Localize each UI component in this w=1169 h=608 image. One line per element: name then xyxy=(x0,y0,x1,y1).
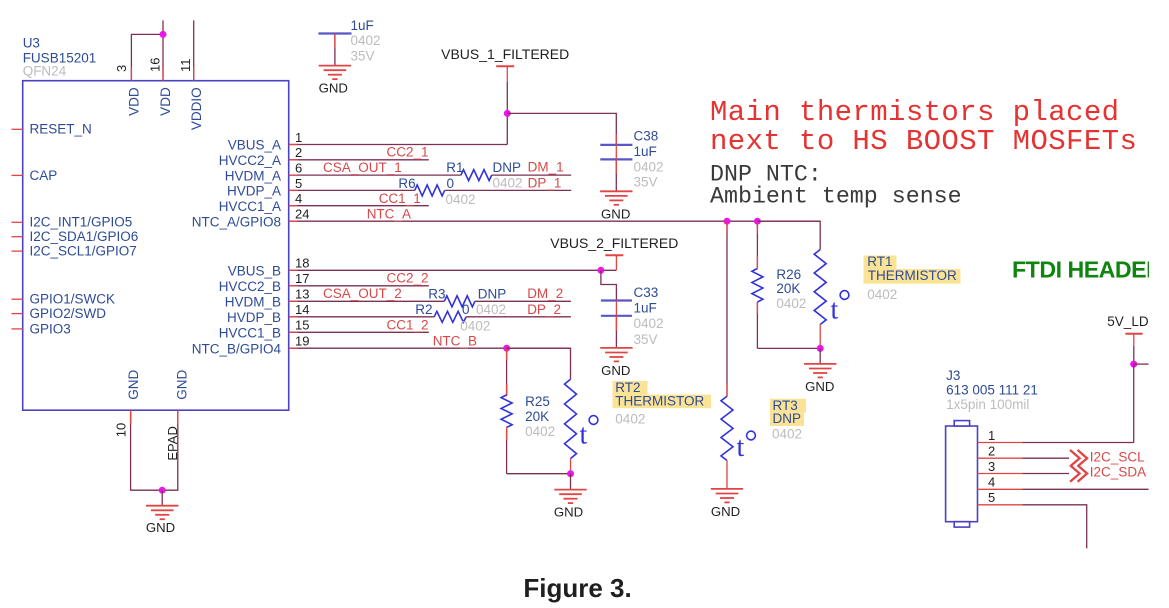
resistor R25 xyxy=(501,395,512,428)
svg-text:GPIO1/SWCK: GPIO1/SWCK xyxy=(30,292,116,307)
svg-text:HVCC2_B: HVCC2_B xyxy=(219,279,281,294)
svg-text:Figure 3.: Figure 3. xyxy=(523,573,631,603)
wire DM_2 xyxy=(475,300,571,302)
capacitor C37 plate xyxy=(318,32,351,34)
svg-text:DM_1: DM_1 xyxy=(528,160,564,175)
port chevron I2C_SCL xyxy=(1070,450,1087,466)
svg-text:CC1_2: CC1_2 xyxy=(387,317,429,332)
junction EPAD/GND xyxy=(159,487,166,494)
svg-text:Ambient temp sense: Ambient temp sense xyxy=(710,183,962,209)
svg-text:11: 11 xyxy=(178,59,193,73)
svg-text:HVDP_A: HVDP_A xyxy=(227,184,281,199)
pin GPIO1/SWCK stub xyxy=(12,298,23,300)
svg-text:NTC_A: NTC_A xyxy=(367,207,411,222)
svg-text:CC2_2: CC2_2 xyxy=(387,271,429,286)
pin CAP stub xyxy=(12,174,23,176)
ground symbol RT3 xyxy=(711,488,743,490)
resistor R1 xyxy=(461,170,492,181)
junction R25/RT2 bottom xyxy=(567,470,574,477)
svg-text:DP_2: DP_2 xyxy=(527,302,561,317)
junction VBUS_2 xyxy=(597,267,604,274)
svg-text:DNP: DNP xyxy=(478,286,507,301)
wire VBUS_2 pin18 xyxy=(289,269,617,271)
wire R25 bottom xyxy=(506,427,508,473)
net CC1_1 stub xyxy=(289,205,429,207)
wire J3 pin5 xyxy=(978,504,1023,506)
svg-text:VBUS_B: VBUS_B xyxy=(228,264,281,279)
wire NTC_B xyxy=(289,347,571,349)
net CC2_1 stub xyxy=(289,159,429,161)
svg-text:1: 1 xyxy=(988,428,995,443)
svg-text:613 005 111 21: 613 005 111 21 xyxy=(946,383,1038,398)
pin number 11 xyxy=(178,59,193,73)
svg-text:VDDIO: VDDIO xyxy=(189,87,204,130)
wire RT3 bottom xyxy=(726,461,728,489)
svg-text:2: 2 xyxy=(988,444,995,459)
svg-text:DNP: DNP xyxy=(773,411,802,426)
resistor R26 xyxy=(752,269,763,303)
svg-text:R26: R26 xyxy=(776,267,801,282)
svg-text:19: 19 xyxy=(295,334,309,349)
wire C37 to ground xyxy=(334,34,336,66)
svg-text:R25: R25 xyxy=(525,394,550,409)
svg-text:0402: 0402 xyxy=(493,175,523,190)
svg-text:17: 17 xyxy=(295,271,309,286)
svg-text:24: 24 xyxy=(295,207,309,222)
pin EPAD wire xyxy=(162,410,178,490)
svg-text:VDD: VDD xyxy=(158,87,173,116)
svg-text:HVCC1_B: HVCC1_B xyxy=(219,326,281,341)
capacitor C33 plates xyxy=(601,299,632,301)
wire RT3 top xyxy=(726,221,728,396)
svg-text:15: 15 xyxy=(295,318,309,333)
svg-text:5: 5 xyxy=(295,176,302,191)
svg-text:DP_1: DP_1 xyxy=(528,176,562,191)
svg-text:16: 16 xyxy=(147,58,162,72)
svg-text:1: 1 xyxy=(295,130,302,145)
svg-text:0402: 0402 xyxy=(476,302,506,317)
wire HVDP_B to R2 xyxy=(289,316,435,318)
svg-text:t: t xyxy=(831,295,839,326)
svg-text:I2C_SCL1/GPIO7: I2C_SCL1/GPIO7 xyxy=(30,244,137,259)
junction R26/RT1 bottom xyxy=(817,345,824,352)
svg-text:VBUS_A: VBUS_A xyxy=(228,138,281,153)
svg-text:U3: U3 xyxy=(23,35,40,50)
svg-text:0402: 0402 xyxy=(460,319,490,334)
svg-text:HVDP_B: HVDP_B xyxy=(227,310,281,325)
highlight RT1 xyxy=(864,256,897,270)
wire 5V riser xyxy=(1133,346,1135,364)
svg-text:THERMISTOR: THERMISTOR xyxy=(868,268,957,283)
svg-text:3: 3 xyxy=(114,65,129,72)
svg-text:RESET_N: RESET_N xyxy=(30,122,92,137)
svg-text:0: 0 xyxy=(462,302,470,317)
svg-text:HVCC1_A: HVCC1_A xyxy=(219,199,281,214)
wire DM_1 xyxy=(492,174,572,176)
svg-text:CC1_1: CC1_1 xyxy=(379,191,421,206)
pin GPIO2/SWD stub xyxy=(12,313,23,315)
svg-text:NTC_B: NTC_B xyxy=(433,333,477,348)
ground symbol EPAD xyxy=(161,490,163,506)
pin label VDDIO (11) xyxy=(189,87,204,130)
wire R26 top xyxy=(756,221,758,268)
svg-text:GND: GND xyxy=(319,81,348,96)
pin number 10 xyxy=(113,423,128,437)
wire NTC_A xyxy=(289,220,821,222)
pin label GND (EPAD) xyxy=(174,369,189,399)
ground symbol R25/RT2 xyxy=(570,474,572,490)
highlight RT2 xyxy=(613,381,648,395)
svg-text:Main thermistors placed: Main thermistors placed xyxy=(710,96,1119,129)
net CC2_2 stub xyxy=(289,285,429,287)
capacitor C38 plates xyxy=(600,144,632,146)
svg-text:I2C_SCL: I2C_SCL xyxy=(1090,450,1145,465)
svg-text:13: 13 xyxy=(295,287,309,302)
svg-text:C38: C38 xyxy=(634,129,659,144)
svg-text:I2C_SDA: I2C_SDA xyxy=(1090,464,1146,479)
resistor R6 xyxy=(415,185,445,196)
wire J3 pin2 xyxy=(978,457,1023,459)
junction 5V xyxy=(1130,361,1137,368)
svg-text:I2C_SDA1/GPIO6: I2C_SDA1/GPIO6 xyxy=(30,229,139,244)
svg-text:VDD: VDD xyxy=(126,87,141,116)
svg-text:HVDM_A: HVDM_A xyxy=(225,168,281,183)
wire C33 to ground xyxy=(615,316,617,348)
svg-text:GND: GND xyxy=(554,505,583,520)
wire J3 pin4 xyxy=(978,488,1023,490)
wire VBUS_1 riser xyxy=(506,82,508,113)
svg-text:FTDI HEADER: FTDI HEADER xyxy=(1012,257,1163,283)
svg-text:HVDM_B: HVDM_B xyxy=(225,295,281,310)
wire VBUS_2 to C33 xyxy=(601,270,617,300)
svg-text:0402: 0402 xyxy=(772,427,802,442)
pin 3 VDD wire xyxy=(131,34,163,80)
wire DP_1 xyxy=(445,189,572,191)
wire HVDP_A to R6 xyxy=(289,189,415,191)
pin I2C_SDA1/GPIO6 stub xyxy=(12,236,23,238)
svg-text:DM_2: DM_2 xyxy=(527,286,563,301)
pin 10 GND wire xyxy=(131,410,163,490)
svg-text:2: 2 xyxy=(295,145,302,160)
svg-text:3: 3 xyxy=(988,459,995,474)
junction VBUS_1 xyxy=(504,110,511,117)
svg-text:0402: 0402 xyxy=(867,287,897,302)
wire R25 top xyxy=(506,348,508,395)
svg-text:CSA_OUT_1: CSA_OUT_1 xyxy=(323,160,402,175)
svg-text:1uF: 1uF xyxy=(634,300,657,315)
wire RT2 top xyxy=(507,348,571,379)
svg-text:J3: J3 xyxy=(946,368,960,383)
svg-text:R1: R1 xyxy=(446,160,463,175)
svg-text:R2: R2 xyxy=(415,302,432,317)
svg-text:35V: 35V xyxy=(351,49,375,64)
svg-text:0402: 0402 xyxy=(525,424,555,439)
svg-text:R3: R3 xyxy=(428,286,445,301)
svg-text:THERMISTOR: THERMISTOR xyxy=(615,394,704,409)
resistor R3 xyxy=(444,296,475,307)
ground symbol C33 xyxy=(600,347,632,349)
thermistor RT2 xyxy=(565,379,577,458)
svg-text:NTC_A/GPIO8: NTC_A/GPIO8 xyxy=(192,214,281,229)
svg-text:CAP: CAP xyxy=(30,168,58,183)
svg-text:0402: 0402 xyxy=(634,159,664,174)
svg-text:0402: 0402 xyxy=(634,316,664,331)
wire HVDM_B to R3 xyxy=(289,300,445,302)
svg-text:4: 4 xyxy=(295,191,302,206)
wire R26 bottom xyxy=(756,302,758,348)
wire RT2 bottom xyxy=(570,459,572,474)
svg-text:1x5pin 100mil: 1x5pin 100mil xyxy=(946,397,1029,412)
svg-text:C33: C33 xyxy=(634,285,659,300)
svg-text:GND: GND xyxy=(601,206,630,221)
net flag 5V_LD xyxy=(1107,314,1159,329)
svg-text:RT1: RT1 xyxy=(867,254,892,269)
title FTDI HEADER xyxy=(1012,257,1163,283)
svg-text:CSA_OUT_2: CSA_OUT_2 xyxy=(323,286,402,301)
svg-text:HVCC2_A: HVCC2_A xyxy=(219,153,281,168)
svg-text:NTC_B/GPIO4: NTC_B/GPIO4 xyxy=(192,341,282,356)
svg-text:t: t xyxy=(580,420,588,451)
svg-text:GND: GND xyxy=(146,520,175,535)
junction NTC_A/R26 xyxy=(754,218,761,225)
svg-text:next to HS BOOST MOSFETs: next to HS BOOST MOSFETs xyxy=(710,125,1137,158)
port chevron I2C_SDA xyxy=(1070,465,1087,481)
svg-text:GND: GND xyxy=(126,369,141,399)
svg-text:EPAD: EPAD xyxy=(165,426,180,460)
junction NTC_B/R25 xyxy=(503,345,510,352)
connector J3 body xyxy=(946,426,978,522)
svg-text:GPIO2/SWD: GPIO2/SWD xyxy=(30,306,107,321)
net CC1_2 stub xyxy=(289,331,429,333)
wire VBUS_1 pin1 xyxy=(289,144,508,146)
thermistor RT3 xyxy=(721,396,733,460)
highlight RT3 xyxy=(770,399,806,413)
svg-text:6: 6 xyxy=(295,161,302,176)
svg-text:35V: 35V xyxy=(634,332,658,347)
svg-text:R6: R6 xyxy=(398,176,415,191)
svg-text:18: 18 xyxy=(295,256,309,271)
svg-text:20K: 20K xyxy=(525,409,549,424)
pin GPIO3 stub xyxy=(12,328,23,330)
wire VBUS_1 to C38 xyxy=(507,113,616,144)
svg-text:I2C_INT1/GPIO5: I2C_INT1/GPIO5 xyxy=(30,215,133,230)
pin label GND (10) xyxy=(126,369,141,399)
ground symbol R26/RT1 xyxy=(819,348,821,364)
svg-text:1uF: 1uF xyxy=(351,18,374,33)
pin number 16 xyxy=(147,58,162,72)
svg-text:GND: GND xyxy=(601,363,630,378)
thermistor RT1 xyxy=(814,250,826,325)
junction VDD net xyxy=(160,31,167,38)
svg-text:5: 5 xyxy=(988,490,995,505)
svg-text:0402: 0402 xyxy=(446,192,476,207)
svg-text:CC2_1: CC2_1 xyxy=(387,145,429,160)
ground symbol C37 xyxy=(319,65,351,67)
pin label VDD (3) xyxy=(126,87,141,116)
svg-text:20K: 20K xyxy=(776,281,800,296)
svg-text:35V: 35V xyxy=(634,175,658,190)
svg-text:GND: GND xyxy=(711,504,740,519)
wire DP_2 xyxy=(466,316,571,318)
svg-text:14: 14 xyxy=(295,302,309,317)
pin number 3 xyxy=(114,65,129,72)
wire C38 to ground xyxy=(615,159,617,191)
wire 5V right xyxy=(1134,363,1149,365)
IC U3 body xyxy=(23,81,289,411)
svg-text:VBUS_2_FILTERED: VBUS_2_FILTERED xyxy=(550,235,678,251)
wire J3 pin1 xyxy=(978,442,1023,444)
resistor R2 xyxy=(434,311,466,322)
pin 11 VDDIO wire xyxy=(193,20,195,80)
pin label VDD (16) xyxy=(158,87,173,116)
svg-text:QFN24: QFN24 xyxy=(23,63,67,78)
junction NTC_A/RT3 xyxy=(724,218,731,225)
svg-text:DNP: DNP xyxy=(493,160,522,175)
svg-text:0402: 0402 xyxy=(615,412,645,427)
svg-text:1uF: 1uF xyxy=(634,144,657,159)
wire HVDM_A to R1 xyxy=(289,174,461,176)
svg-text:t: t xyxy=(737,432,745,463)
svg-text:0: 0 xyxy=(447,176,455,191)
svg-text:GND: GND xyxy=(805,379,834,394)
svg-text:GPIO3: GPIO3 xyxy=(30,321,71,336)
pin 16 VDD wire xyxy=(162,20,164,80)
wire RT1 top xyxy=(757,221,820,249)
svg-text:0402: 0402 xyxy=(776,296,806,311)
svg-text:10: 10 xyxy=(113,423,128,437)
svg-text:VBUS_1_FILTERED: VBUS_1_FILTERED xyxy=(441,46,569,62)
ground symbol C38 xyxy=(600,190,632,192)
wire J3 pin3 xyxy=(978,473,1023,475)
wire RT1 bottom xyxy=(819,325,821,349)
wire 5V to J3 pin1 xyxy=(1133,364,1135,442)
svg-text:4: 4 xyxy=(988,475,995,490)
svg-text:0402: 0402 xyxy=(351,33,381,48)
pin I2C_SCL1/GPIO7 stub xyxy=(12,250,23,252)
pin I2C_INT1/GPIO5 stub xyxy=(12,221,23,223)
pin name EPAD xyxy=(165,426,180,460)
svg-text:GND: GND xyxy=(174,369,189,399)
pin RESET_N stub xyxy=(12,128,23,130)
